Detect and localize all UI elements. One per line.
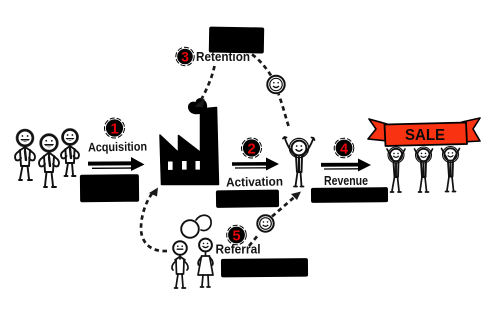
badge 1 (numbered step circle) <box>105 118 125 138</box>
figure customer R3 <box>442 147 460 192</box>
right ribbon tail <box>462 118 480 142</box>
svg-text:4: 4 <box>340 141 348 157</box>
referral talking figures <box>172 215 213 288</box>
redacted label box 1 <box>80 174 139 202</box>
redacted label box 2 <box>216 190 279 208</box>
badge 2 <box>242 138 262 158</box>
left ribbon tail <box>368 119 388 141</box>
speech bubble <box>181 220 199 238</box>
svg-text:2: 2 <box>247 141 255 158</box>
dashed arrow retention to factory <box>201 66 215 100</box>
figure person L3 <box>61 129 79 176</box>
svg-text:Activation: Activation <box>226 174 283 189</box>
svg-text:Acquisition: Acquisition <box>88 139 147 154</box>
dashed arrow referral to new customer <box>249 197 295 247</box>
svg-text:SALE: SALE <box>405 127 445 144</box>
smiley face icon (referral loop) <box>257 215 273 231</box>
figure customer R1 <box>387 147 405 192</box>
cheering customer figure <box>283 137 315 187</box>
factory windows <box>168 161 200 170</box>
group of three new-user stick figures (left) <box>15 129 79 187</box>
badge 5 <box>227 225 247 245</box>
svg-text:Revenue: Revenue <box>324 174 368 188</box>
factory smoke <box>187 97 208 115</box>
banner main band <box>385 123 468 147</box>
svg-text:Referral: Referral <box>216 243 261 257</box>
smiley face icon (retention loop) <box>267 76 284 93</box>
arrow 4 revenue <box>321 159 371 172</box>
figure person L1 <box>15 129 35 180</box>
paying customers holding banner <box>387 147 460 193</box>
figure person L2 <box>39 134 59 187</box>
badge 3 <box>176 47 194 65</box>
badge 4 <box>334 138 354 158</box>
svg-text:1: 1 <box>110 121 118 138</box>
figure referred friend <box>198 239 213 287</box>
SALE banner ribbon <box>368 118 480 146</box>
figure referrer <box>172 241 188 288</box>
redacted label box 4 <box>311 187 388 203</box>
arrow 2 activation <box>232 158 279 171</box>
dashed arrow referral back to factory <box>141 191 167 251</box>
dashed curve customer to retention <box>252 55 289 127</box>
arrow 1 acquisition <box>88 157 145 171</box>
figure customer R2 <box>415 147 433 192</box>
redacted label box 3 <box>209 27 264 54</box>
svg-text:3: 3 <box>181 49 189 65</box>
factory building <box>160 97 219 184</box>
redacted label box 5 <box>221 258 308 277</box>
